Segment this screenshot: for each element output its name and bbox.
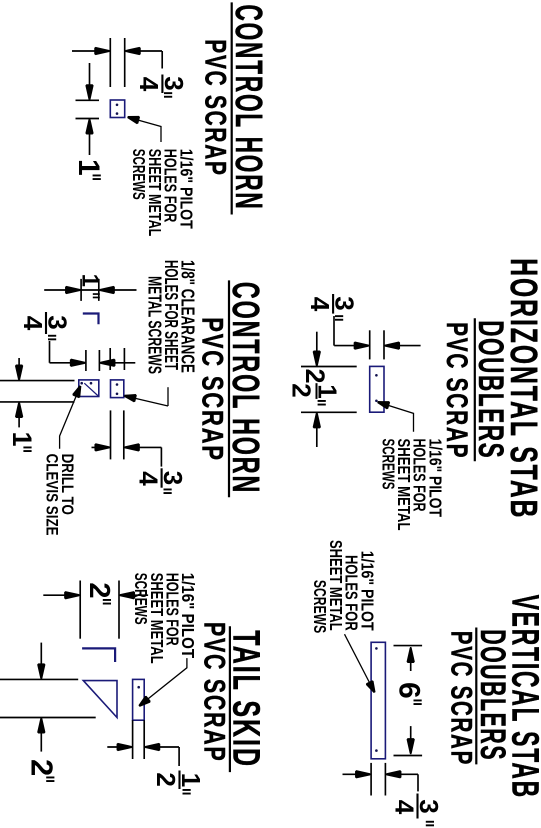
svg-text:CONTROL HORN: CONTROL HORN (227, 5, 269, 211)
svg-text:METAL SCREWS: METAL SCREWS (145, 276, 165, 374)
leader: 3/4 text (drawing 2 right) (160, 447, 162, 466)
dim arrow: 3/4 upper (drawing 2 right square) (124, 446, 162, 448)
clearance hole B3 (116, 383, 119, 386)
extension line: 3/4 dim bottom (drawing 1) (109, 38, 111, 87)
inch marks: 1/2 (drawing 4) (183, 789, 191, 791)
extension line: 3/4 dim right-square bottom (drawing 2) (110, 410, 112, 459)
svg-text:4: 4 (134, 77, 164, 92)
extension line: 1 inch dim top (drawing 2) (98, 279, 100, 301)
extension line: 3/4 dim left-square top (drawing 2) (98, 350, 100, 371)
part: control horn square right (blue) (111, 380, 124, 398)
underline: DOUBLERS (drawing 5) (475, 628, 477, 765)
underline: CONTROL HORN (drawing 2) (228, 280, 230, 497)
svg-text:PVC SCRAP: PVC SCRAP (199, 39, 232, 176)
clevis hole B2 (80, 382, 83, 385)
dim arrow: 3/4 lower (drawing 1) (72, 50, 110, 52)
leader: 3/4 text (drawing 1) (161, 51, 163, 69)
svg-text:SCREWS: SCREWS (310, 580, 330, 633)
extension line: 2-1/2 dim right (drawing 3) (301, 411, 357, 413)
extension line: 3/4 dim bottom (drawing 3) (369, 330, 371, 359)
dim arrow: 2 inch lower (drawing 4) (43, 594, 80, 596)
fraction bar: 3/4 (drawing 2 right) (161, 468, 163, 487)
extension line: 3/4 dim right-square top (drawing 2) (123, 410, 125, 459)
svg-text:SCREWS: SCREWS (131, 573, 151, 625)
part: bent tab corner (blue, drawing 4) (82, 648, 115, 662)
pilot hole D1 (137, 686, 140, 689)
underline: TAIL SKID (drawing 4) (229, 626, 231, 772)
pilot hole C1 (375, 374, 378, 377)
extension line: 2 inch dim bottom (drawing 4) (79, 581, 81, 639)
svg-text:4: 4 (390, 800, 420, 815)
extension line: 3/4 dim bottom (drawing 5) (370, 763, 372, 796)
pilot hole A1 (116, 104, 119, 107)
svg-text:1: 1 (77, 274, 104, 287)
extension line: 2 inch width dim left (drawing 4) (0, 678, 78, 680)
extension line: bottom 1 inch dim left (drawing 2) (0, 380, 75, 382)
extension line: 6 inch dim right (drawing 5) (394, 755, 423, 757)
dim arrow: 3/4 lower (drawing 3) (334, 345, 370, 347)
extension line: 1 inch dim right (drawing 1) (76, 118, 100, 120)
leader: drill to clevis note (drawing 2) (60, 390, 79, 449)
svg-text:SCREWS: SCREWS (129, 149, 149, 200)
inch marks: 1 inch (drawing 2) (93, 293, 100, 295)
part: control horn blank A (blue rectangle) (110, 100, 124, 118)
extension line: right-square bottom (drawing 2) (109, 348, 111, 370)
inch marks: 2 inch width (drawing 4) (46, 777, 54, 779)
inch marks: 2-1/2 (drawing 3) (318, 400, 326, 402)
part: vertical stab doubler (blue rectangle) (371, 642, 385, 759)
extension line: 3/4 dim top (drawing 1) (124, 38, 126, 87)
clearance hole B4 (116, 393, 119, 396)
svg-text:2: 2 (287, 383, 317, 397)
dim arrow: 2 inch upper (drawing 4) (119, 594, 148, 596)
dim arrow: 2 inch width right (drawing 4) (40, 718, 42, 752)
dim arrow: 1 inch lower (drawing 2) (66, 287, 80, 293)
inch marks: 6 inch (drawing 5) (414, 700, 422, 702)
dim arrow: bottom 1 inch right (drawing 2) (18, 402, 20, 428)
dim arrow: 2-1/2 right (drawing 3) (316, 412, 318, 447)
dim arrow: 3/4 upper (drawing 3) (384, 345, 421, 347)
pilot hole E1 (375, 647, 378, 650)
pilot hole E2 (375, 749, 378, 752)
extension line: 1/2 dim bottom (drawing 4) (132, 720, 134, 759)
inch marks: bottom 1 inch (drawing 2) (23, 447, 31, 449)
pilot hole A2 (116, 112, 119, 115)
svg-text:CLEVIS SIZE: CLEVIS SIZE (42, 454, 61, 536)
svg-text:4: 4 (305, 297, 335, 312)
svg-text:2: 2 (83, 582, 115, 598)
extension line: 1 inch dim bottom (drawing 2) (80, 279, 82, 301)
extension line: 3/4 dim top (drawing 5) (384, 763, 386, 796)
clevis hole B1 (90, 382, 93, 385)
extension line: right-square top (drawing 2) (123, 348, 125, 370)
inch marks: 3/4 (drawing 2 right) (164, 489, 172, 491)
svg-text:2: 2 (25, 759, 60, 776)
svg-text:PVC SCRAP: PVC SCRAP (444, 631, 477, 766)
svg-text:1: 1 (72, 159, 105, 176)
dim arrow: bottom 1 inch left (drawing 2) (18, 358, 20, 381)
svg-text:DOUBLERS: DOUBLERS (473, 629, 512, 761)
extension line: 1 inch dim left (drawing 1) (76, 99, 100, 101)
dim arrow: 3/4 upper (drawing 5) (385, 773, 418, 775)
dim arrow: 6 inch right (drawing 5) (410, 726, 412, 754)
svg-text:PVC SCRAP: PVC SCRAP (198, 622, 231, 763)
dim arrow: 6 inch left (drawing 5) (410, 647, 412, 671)
dim line: 1 inch continuous (drawing 2) (44, 289, 136, 291)
leader: 3/4 text (drawing 3) (333, 316, 335, 346)
extension line: 3/4 dim top (drawing 3) (383, 330, 385, 359)
part: bent tab corner (blue) (83, 314, 99, 325)
inch marks: 3/4 (drawing 2 left) (48, 335, 56, 337)
fraction bar: 1/2 (drawing 4) (178, 771, 180, 790)
fraction bar: 1/2 (drawing 3) (316, 383, 318, 399)
extension line: 6 inch dim left (drawing 5) (394, 645, 423, 647)
extension line: 2 inch width dim right (drawing 4) (0, 717, 96, 719)
inch marks: 2 inch vertical (drawing 4) (103, 599, 111, 601)
inch marks: 1 inch (drawing 1) (93, 175, 101, 177)
underline: CONTROL HORN (drawing 1) (231, 2, 233, 214)
dim arrow: 3/4 upper (drawing 1) (125, 50, 162, 52)
dim arrow: 3/4 upper (drawing 2 left square) (99, 362, 135, 364)
leader: pilot holes note (drawing 4) (142, 658, 187, 704)
pilot hole C2 (375, 400, 378, 403)
dim arrow: 1/2 upper (drawing 4) (144, 746, 179, 748)
part: tail skid triangle (blue) (83, 681, 117, 718)
extension line: bottom 1 inch dim right (drawing 2) (0, 401, 75, 403)
svg-text:2: 2 (300, 369, 330, 384)
extension line: 2 inch dim top (drawing 4) (118, 581, 120, 639)
leader: 1/2 text (drawing 4) (178, 747, 180, 766)
dim arrow: 3/4 lower (drawing 2 right square) (92, 446, 111, 448)
part: control horn square left (blue) (79, 380, 99, 397)
inch marks: 3/4 (drawing 3) (335, 315, 343, 317)
part: tail skid mount strip (blue rectangle) (133, 679, 145, 720)
dim arrow: 3/4 lower (drawing 5) (343, 773, 372, 775)
dim arrow: 2-1/2 left (drawing 3) (316, 332, 318, 367)
svg-text:6: 6 (393, 682, 426, 699)
svg-text:4: 4 (18, 316, 48, 331)
leader: 3/4 text (drawing 5) (417, 774, 419, 791)
svg-text:PVC SCRAP: PVC SCRAP (195, 317, 228, 462)
leader: clearance holes note (drawing 2) (167, 387, 169, 406)
svg-text:4: 4 (133, 471, 163, 486)
svg-text:CONTROL HORN: CONTROL HORN (224, 282, 266, 494)
inch marks: 3/4 (drawing 1) (164, 92, 172, 94)
fold diagonal on left square (blue) (84, 383, 99, 396)
svg-text:1: 1 (7, 432, 37, 447)
leader: 3/4 text (drawing 2 left) (49, 341, 51, 363)
extension line: 3/4 dim left-square bottom (drawing 2) (85, 350, 87, 371)
part: horizontal stab doubler (blue rectangle) (370, 366, 384, 412)
leader: pilot holes note (drawing 1) (132, 118, 162, 142)
dim arrow: 1 inch right (drawing 1) (89, 119, 91, 156)
svg-text:2: 2 (151, 772, 181, 786)
dim arrow: 1/2 lower (drawing 4) (107, 746, 132, 748)
inch marks: 3/4 (drawing 5) (426, 821, 434, 823)
fraction bar: 3/4 (drawing 2 left) (45, 312, 47, 334)
dim arrow: 3/4 lower (drawing 2 left square) (50, 362, 86, 364)
leader: pilot holes note (drawing 3) (382, 403, 414, 432)
leader: pilot holes note (drawing 5) (345, 634, 373, 689)
dim arrow: 1 inch upper (drawing 2) (100, 287, 114, 293)
fraction bar: 3/4 (drawing 1) (161, 75, 163, 94)
dim arrow: 2 inch width left (drawing 4) (40, 643, 42, 680)
fraction bar: 3/4 (drawing 3) (332, 294, 334, 314)
svg-text:DOUBLERS: DOUBLERS (471, 320, 510, 459)
underline: DOUBLERS (drawing 3) (474, 318, 476, 461)
fraction bar: 3/4 (drawing 5) (416, 794, 418, 819)
dim arrow: 1 inch left (drawing 1) (89, 63, 91, 100)
extension line: 1/2 dim top (drawing 4) (143, 720, 145, 759)
svg-text:SCREWS: SCREWS (378, 439, 398, 490)
extension line: 2-1/2 dim left (drawing 3) (301, 366, 357, 368)
